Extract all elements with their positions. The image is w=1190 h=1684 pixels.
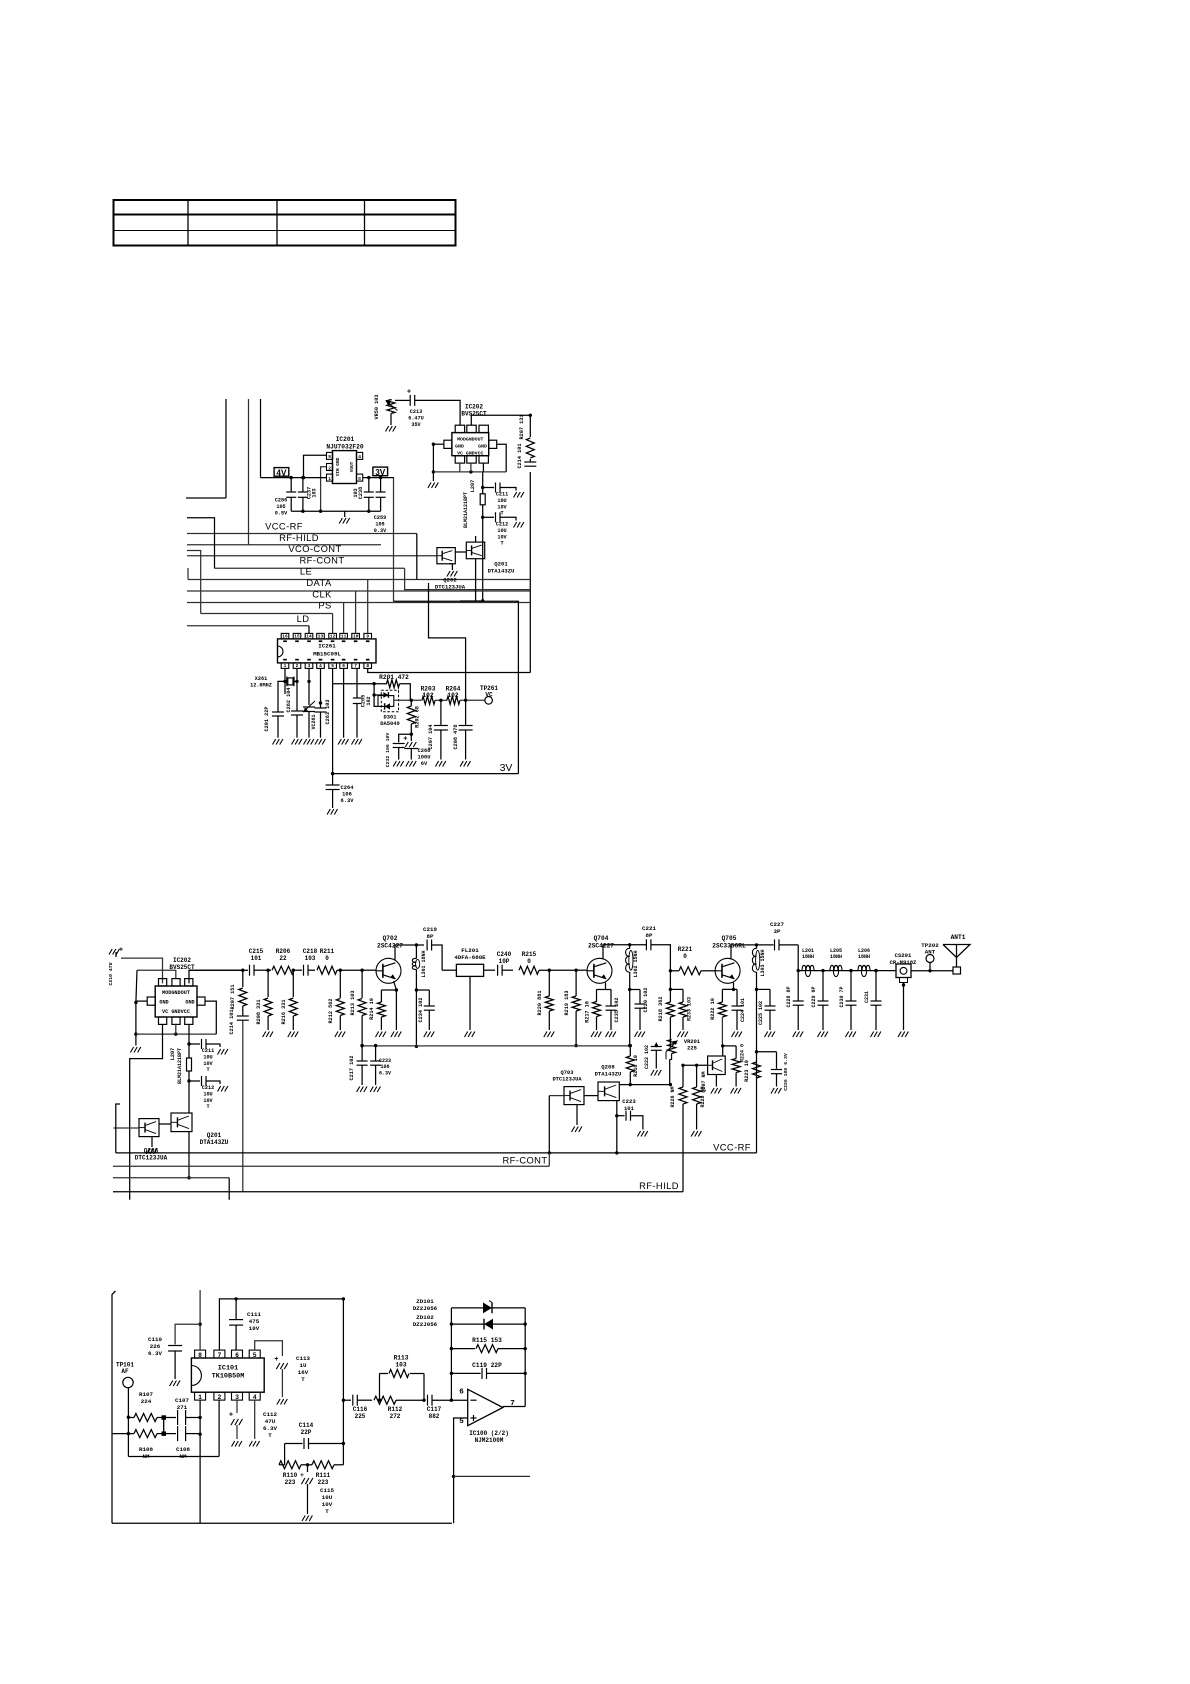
ground R224 [731,1088,741,1094]
wire LE to pin9 [367,580,369,634]
svg-text:7: 7 [217,1352,221,1359]
svg-text:102: 102 [366,696,372,705]
node VCC-RF label [265,521,303,532]
inductor L302 [626,945,639,978]
wire audio bottom rail [112,1522,452,1524]
svg-text:C231: C231 [864,991,870,1003]
wire RF-CONT drop [405,568,531,589]
node DATA label [306,577,332,588]
capacitor C234 [416,990,434,1030]
wire pin1 down [198,1400,201,1523]
inductor L303 [752,945,766,977]
transistor Q703 DTC123JUA (mid) [552,1070,584,1105]
svg-text:LD: LD [297,613,310,624]
capacitor C222 [644,1043,662,1069]
capacitor C223 [617,1098,643,1130]
resistor R217 [585,990,601,1031]
capacitor C268 [403,734,430,767]
wire stepped drop to R264 row [429,583,466,700]
svg-text:Q703: Q703 [561,1070,574,1076]
svg-text:L205: L205 [830,948,842,954]
wire Q702 emitter [381,981,398,1030]
wire CLK [187,602,530,604]
svg-text:C232 106 10V: C232 106 10V [385,733,391,768]
svg-text:6.3V: 6.3V [148,1350,162,1357]
ground pin6 [338,739,348,745]
svg-text:VC GNDVCC: VC GNDVCC [457,450,483,456]
wire LD [187,625,309,627]
wire R203-R264 [435,699,447,702]
svg-text:C222 102: C222 102 [644,1045,650,1069]
svg-text:10V: 10V [203,1098,213,1104]
wire IC201 pin5 tap [304,455,327,477]
ground C217 [357,1087,367,1093]
capacitor C107 [166,1397,200,1425]
svg-text:R219 183: R219 183 [564,991,570,1016]
wire LE [188,579,530,581]
ground pin4 IC101 [249,1441,259,1447]
svg-text:10U: 10U [497,528,506,534]
capacitor C217 [349,1044,368,1085]
svg-text:R113: R113 [394,1355,409,1362]
svg-text:226: 226 [150,1343,161,1350]
svg-text:+: + [229,1412,233,1420]
svg-text:T: T [206,1067,209,1073]
svg-text:C107: C107 [175,1397,189,1404]
svg-text:1U: 1U [300,1362,307,1369]
testpoint TP202 ANT [921,942,939,971]
svg-text:C108: C108 [176,1446,190,1453]
transistor Q202 DTC123JUA [435,548,466,591]
svg-text:106: 106 [380,1064,389,1070]
ic IC100 label [469,1430,509,1444]
wire RF-CONT [215,567,405,569]
svg-text:C113: C113 [296,1355,310,1362]
svg-text:C112: C112 [263,1411,277,1418]
ground C230 [846,1032,856,1038]
svg-text:C201 22P: C201 22P [264,707,270,732]
wire TP101 stem [127,1388,130,1457]
ground C232 [393,761,403,767]
svg-text:101: 101 [251,955,262,962]
svg-text:DTC123JUA: DTC123JUA [435,583,466,590]
svg-text:C234 102: C234 102 [418,998,424,1023]
svg-text:R107: R107 [139,1391,153,1398]
wire R107-R108 tie [163,1418,165,1434]
svg-text:103: 103 [353,488,359,497]
svg-text:Q702: Q702 [383,935,398,942]
svg-text:MODGNDOUT: MODGNDOUT [162,990,190,996]
node 4V [274,468,289,478]
wire Q207 base row [681,1064,707,1067]
svg-text:102: 102 [447,692,458,699]
wire 3V drop g [393,478,395,602]
svg-text:+: + [403,736,407,744]
wire VCC-RF hook [116,1104,120,1153]
ground C229 [818,1032,828,1038]
svg-text:2SC4227: 2SC4227 [377,942,403,949]
svg-text:223: 223 [285,1479,296,1486]
capacitor C228 [786,971,804,1030]
svg-text:C211: C211 [496,492,508,498]
resistor R203 [421,686,436,705]
svg-text:C221: C221 [642,925,656,932]
svg-text:DZ2J056: DZ2J056 [413,1305,438,1312]
svg-text:C210 47U: C210 47U [108,962,114,985]
svg-text:2SC3356RL: 2SC3356RL [712,942,746,949]
svg-text:R111: R111 [316,1472,331,1479]
svg-text:L302 15NH: L302 15NH [633,950,639,977]
svg-text:10V: 10V [203,1061,213,1067]
resistor R202 [407,700,420,736]
node VCO-CONT label [288,543,341,554]
svg-text:NM: NM [143,1453,150,1460]
svg-text:22: 22 [279,955,287,962]
svg-text:C110: C110 [148,1336,162,1343]
wire VCC-RF vertical [529,415,531,672]
wire Q201-mid collector down [187,1132,190,1180]
wire Q206 base [114,1127,140,1129]
wire Q704 collector [603,943,646,959]
svg-text:VC261: VC261 [311,714,317,729]
svg-text:103: 103 [395,1362,406,1369]
svg-text:VIN GND: VIN GND [336,457,341,476]
wire top feed C [260,399,262,478]
ic IC101 label [212,1365,245,1381]
svg-text:R226 NM: R226 NM [670,1086,676,1107]
svg-text:VR50 103: VR50 103 [374,395,380,420]
svg-text:VCC-RF: VCC-RF [713,1142,751,1153]
svg-text:C263 103: C263 103 [325,700,331,725]
svg-text:R214 10: R214 10 [369,998,375,1020]
svg-text:C286: C286 [275,498,287,504]
svg-text:C214 101: C214 101 [517,444,523,469]
svg-text:DA5049: DA5049 [380,721,399,727]
svg-text:VR201: VR201 [684,1039,700,1045]
capacitor C231 [864,969,882,1030]
ground C235 [606,1032,616,1038]
resistor R216 [281,970,297,1030]
ic IC101 TK10B50M [191,1350,264,1401]
svg-text:100U: 100U [418,755,431,761]
wire loop filter row [394,699,422,702]
ground R220 [544,1032,554,1038]
svg-text:R223 10: R223 10 [744,1060,750,1082]
ground C234 [424,1032,434,1038]
resistor R201 [379,674,410,700]
svg-text:R220 881: R220 881 [537,991,543,1016]
resistor R215 [519,951,575,974]
svg-text:Q207 NM: Q207 NM [701,1071,707,1092]
svg-text:224: 224 [141,1398,152,1405]
svg-text:4: 4 [358,454,361,460]
svg-text:C264: C264 [341,785,355,791]
svg-text:C259: C259 [374,515,386,521]
svg-text:DTA143ZU: DTA143ZU [595,1070,622,1077]
svg-text:R115 153: R115 153 [472,1337,502,1344]
connector CS201 CR-M918Z [890,952,917,983]
ground R208 [263,1032,273,1038]
svg-text:DATA: DATA [306,577,332,588]
svg-text:272: 272 [390,1413,401,1420]
wire LD to pin14 [308,626,310,634]
module IC202 VCO (mid) [147,979,205,1025]
svg-text:10V: 10V [322,1501,333,1508]
svg-text:14: 14 [306,634,312,640]
node RF-CONT label [300,554,345,565]
svg-text:R202 68: R202 68 [415,706,421,728]
svg-text:4V: 4V [276,468,287,477]
wire top feed A [186,399,226,498]
svg-text:10V: 10V [249,1325,260,1332]
module IC202 VCO (upper) [444,425,497,463]
capacitor C225 [757,989,776,1030]
wire Q702 collector [395,943,424,960]
ground CS201 [898,1032,908,1038]
wire C213 to module [415,400,460,425]
svg-text:C212: C212 [496,522,508,528]
svg-text:RF-CONT: RF-CONT [300,554,345,565]
svg-text:C119 22P: C119 22P [472,1362,502,1369]
capacitor C263 [315,668,332,737]
resistor R220 [537,969,553,1031]
filter FL201 [442,947,495,976]
transistor Q201 DTA143ZU [466,542,514,574]
svg-text:1: 1 [328,476,331,482]
resistor R108 [112,1430,166,1460]
capacitor C233 [370,1044,391,1085]
wire pin6 gnd [343,668,345,737]
svg-text:4: 4 [319,663,322,669]
svg-text:8: 8 [198,1352,202,1359]
wire L207 to Q201 mid [188,1081,190,1113]
svg-text:DTC123JUA: DTC123JUA [135,1155,168,1162]
svg-text:C227: C227 [770,921,784,928]
svg-text:18NH: 18NH [830,954,842,960]
svg-text:1: 1 [198,1394,202,1401]
ground C264 [327,809,337,815]
svg-text:L207: L207 [170,1048,176,1060]
svg-text:C215: C215 [249,948,264,955]
capacitor C220 [630,988,649,1030]
potentiometer VR50 [374,395,398,425]
svg-text:L207: L207 [470,480,476,492]
transistor Q206 DTC123JUA (mid) [135,1119,168,1162]
transistor Q207 NM [701,1056,725,1093]
wire 3V bottom rail [331,772,519,775]
resistor R218 [658,971,674,1046]
wire mid-module OUT [189,969,245,984]
ground C208 [460,761,470,767]
svg-text:R222 10: R222 10 [710,998,716,1020]
svg-text:10: 10 [353,634,359,640]
node 3V net label [500,762,513,774]
capacitor C214 (upper) [517,444,536,469]
svg-text:R108: R108 [139,1446,153,1453]
svg-text:RF-CONT: RF-CONT [503,1155,548,1166]
svg-text:CLK: CLK [312,589,332,600]
svg-text:C240: C240 [497,951,512,958]
inductor L201 [802,948,814,977]
wire DATA to pin10 [355,591,357,633]
svg-text:16: 16 [282,634,288,640]
wire R264-TP261 [460,699,485,702]
capacitor C205 [353,668,372,737]
capacitor C227 [770,921,800,972]
ground C112 [232,1441,242,1447]
wire Q703 gnd [572,1105,582,1132]
svg-text:C218: C218 [303,948,318,955]
capacitor C117 [427,1395,453,1421]
svg-text:VCC-RF: VCC-RF [265,521,303,532]
svg-text:T: T [325,1508,329,1515]
wire L303 down [755,972,758,1054]
capacitor C112 [229,1411,278,1439]
resistor R264 [446,686,461,705]
svg-text:T: T [301,1376,305,1383]
wire Q208 emitter down [615,1101,618,1155]
ground R214 [376,1032,386,1038]
wire Q201 collector down [475,559,477,601]
op-amp U IC201 NJU7032F20 body [327,451,363,484]
wire RF-CONT left step [187,518,215,569]
svg-text:223: 223 [318,1479,329,1486]
resistor R107 [128,1391,166,1422]
ic IC202 label (mid) [169,957,195,971]
svg-text:GND: GND [455,444,464,450]
wire Q705 emitter [722,983,737,992]
inductor L206 [858,948,870,977]
table revision-block (empty) [114,200,456,246]
ground C228 [793,1032,803,1038]
svg-text:T: T [268,1432,272,1439]
svg-text:IC201: IC201 [336,436,355,443]
svg-text:FL201: FL201 [461,947,479,954]
trimmer VC261 [303,668,317,737]
svg-text:1: 1 [284,663,287,669]
svg-text:ANT1: ANT1 [951,934,966,941]
resistor R218b [626,1044,639,1085]
node CLK label [312,589,332,600]
resistor R233 [670,989,692,1030]
wire opamp output [503,1406,525,1408]
svg-text:R217 10: R217 10 [585,1001,591,1023]
ground C262 [292,739,302,745]
node 3V [373,467,388,478]
capacitor C213 [407,389,424,428]
wire opamp plus [452,1418,468,1523]
svg-text:6.3V: 6.3V [379,1070,391,1076]
wire R201 row [333,682,387,685]
svg-text:C212: C212 [202,1085,214,1091]
svg-text:X261: X261 [255,676,267,682]
wire module top rail (mid) [121,958,163,983]
wire ref line [454,1475,530,1477]
ground C212 [514,522,524,528]
svg-text:4DFA-680E: 4DFA-680E [454,954,486,961]
capacitor C108 [166,1426,200,1460]
svg-text:4: 4 [253,1394,257,1401]
op-amp IC100 NJM2100M [459,1389,515,1427]
resistor R221 [670,946,716,975]
ground Q202 [447,564,457,577]
wire RF-HILD vertical [682,1065,684,1192]
wire Q703 base [548,1096,564,1155]
svg-text:10V: 10V [497,534,507,540]
svg-text:10U: 10U [497,498,506,504]
wire IC201 pin2 tap [321,467,327,512]
capacitor C229 [811,969,829,1030]
capacitor C111 [229,1299,261,1350]
resistor R112 [374,1396,426,1420]
resistor R110 [279,1461,309,1486]
wire VCC-RF [187,533,417,535]
svg-text:R221: R221 [678,946,693,953]
wire 3V rail [363,476,394,479]
capacitor C262 [286,681,303,737]
wire L207 node down [481,517,484,602]
capacitor C113 [274,1355,310,1397]
resistor R219 [564,969,580,1048]
wire opamp minus [451,1399,467,1401]
ic IC261 MB15C09L [278,633,377,669]
resistor R111 [304,1461,343,1486]
ground C113 [277,1399,287,1405]
resistor R207 (upper) [519,415,534,458]
ground mid-module left [130,1047,140,1053]
svg-text:R208 331: R208 331 [256,1000,262,1025]
capacitor C110 [148,1324,200,1379]
wire Q704 emitter [597,983,612,990]
ground R228 [691,1131,701,1137]
svg-text:12.8MHZ: 12.8MHZ [250,682,272,688]
svg-text:C115: C115 [320,1487,334,1494]
wire PS left step [187,551,201,614]
svg-text:R110: R110 [283,1472,298,1479]
antenna ANT1 [943,934,970,974]
svg-text:CR-M918Z: CR-M918Z [890,959,917,966]
inductor L207 [463,480,485,528]
svg-text:+: + [119,947,123,955]
svg-text:G: G [358,476,361,482]
svg-text:C225 102: C225 102 [758,1001,764,1025]
svg-text:C262 104: C262 104 [286,688,292,713]
capacitor C224 [732,989,747,1030]
wire PS [201,613,333,615]
svg-text:6: 6 [235,1352,239,1359]
svg-text:C224 101: C224 101 [740,998,746,1022]
svg-text:18NH: 18NH [802,954,814,960]
ic IC202 label (upper) [461,404,487,418]
wire audio left vertical [112,1291,116,1523]
transistor Q208 DTA143ZU (mid) [595,1064,622,1101]
svg-text:VC GNDVCC: VC GNDVCC [162,1009,190,1015]
svg-text:C226 100 6.3V: C226 100 6.3V [783,1053,789,1091]
inductor L207 mid [170,1044,192,1084]
capacitor C232 [385,733,411,768]
svg-text:+: + [300,1472,304,1479]
svg-text:ZD102: ZD102 [416,1314,434,1321]
capacitor C219 [423,926,442,970]
svg-text:10V: 10V [497,504,507,510]
svg-text:0: 0 [683,953,687,960]
svg-text:R207 131: R207 131 [519,415,525,440]
ground R217 [591,1032,601,1038]
wire 3V horizontal [394,600,519,602]
svg-text:R215: R215 [522,951,537,958]
svg-text:BLM21A121BPT: BLM21A121BPT [177,1048,183,1084]
svg-text:22P: 22P [301,1429,312,1436]
